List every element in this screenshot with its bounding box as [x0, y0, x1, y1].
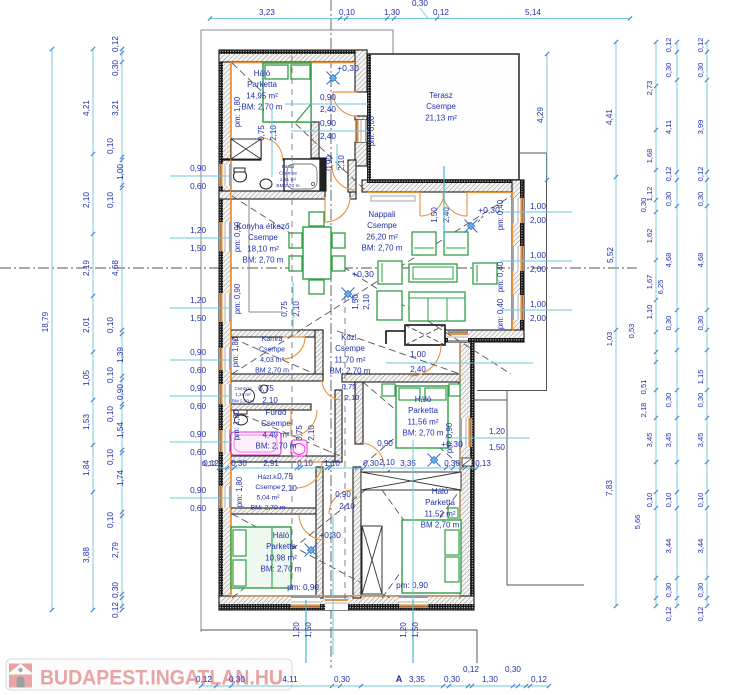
svg-text:pm: 1,80: pm: 1,80 [231, 336, 240, 367]
wing right wall lower [355, 142, 367, 166]
svg-text:0,30: 0,30 [505, 665, 521, 674]
door hall lower [332, 166, 356, 190]
svg-text:Háló: Háló [273, 531, 290, 540]
svg-text:1,15: 1,15 [696, 370, 705, 385]
svg-text:14,95 m²: 14,95 m² [246, 91, 278, 100]
sideboard [371, 196, 415, 201]
diagonal bedroom3 b [382, 490, 460, 598]
svg-text:1,50: 1,50 [411, 622, 420, 638]
roof eaves outline [201, 30, 393, 632]
svg-text:5,52: 5,52 [606, 247, 615, 263]
window left w5 0,90 [219, 384, 231, 404]
svg-text:0,12: 0,12 [111, 602, 120, 618]
svg-text:BM 2,70 m: BM 2,70 m [255, 368, 289, 375]
svg-text:Csempe: Csempe [234, 386, 252, 391]
door wc [291, 410, 317, 436]
svg-text:1,30: 1,30 [482, 675, 498, 684]
svg-text:BM: 2,70 m: BM: 2,70 m [243, 256, 284, 265]
chimney block [405, 325, 445, 345]
nappali right window labels [500, 211, 572, 213]
svg-text:2,10: 2,10 [307, 425, 316, 441]
svg-text:1,20: 1,20 [489, 427, 505, 436]
svg-text:2,00: 2,00 [530, 216, 546, 225]
top exterior wall [219, 50, 367, 62]
svg-text:1,10: 1,10 [645, 305, 654, 320]
svg-text:0,30: 0,30 [664, 393, 673, 408]
svg-text:0,12: 0,12 [696, 607, 705, 622]
right dimension chain totals [615, 42, 617, 606]
svg-text:2,18: 2,18 [639, 403, 648, 418]
section line x345 [344, 296, 346, 600]
svg-text:10,98 m²: 10,98 m² [265, 553, 297, 562]
svg-text:Közl.: Közl. [341, 333, 359, 342]
svg-text:1,00: 1,00 [530, 300, 546, 309]
svg-text:0,30: 0,30 [696, 393, 705, 408]
window step wall SE [448, 331, 468, 342]
svg-text:Parketta: Parketta [247, 80, 277, 89]
svg-text:0,30: 0,30 [444, 459, 460, 468]
svg-text:2,10: 2,10 [281, 484, 297, 493]
right dimension chain col4 [676, 42, 678, 606]
svg-text:0,60: 0,60 [190, 504, 206, 513]
svg-text:0,10: 0,10 [106, 138, 115, 154]
level marker nappali SW [342, 288, 355, 301]
window bottom b2 1,20 [399, 596, 428, 608]
svg-text:0,90: 0,90 [320, 93, 336, 102]
hall door/window labels [285, 103, 368, 105]
svg-text:0,75: 0,75 [277, 472, 293, 481]
built-in wardrobe vertical [362, 526, 382, 594]
svg-text:4,29: 4,29 [536, 107, 545, 123]
left exterior wall [219, 50, 231, 610]
svg-text:0,60: 0,60 [190, 402, 206, 411]
step wall nappali SE [444, 330, 524, 342]
bedroom1 south partition east [283, 158, 321, 160]
svg-text:0,12: 0,12 [203, 459, 219, 468]
svg-text:2,79: 2,79 [111, 542, 120, 558]
svg-text:0,10: 0,10 [645, 493, 654, 508]
svg-text:BM 2,70 m: BM 2,70 m [232, 398, 254, 403]
svg-text:0,12: 0,12 [531, 675, 547, 684]
svg-text:0,12: 0,12 [664, 38, 673, 53]
diagonal furdo [232, 410, 340, 456]
bedroom1 south partition west [221, 158, 262, 160]
bed bedroom4 (halo 10,98) [231, 527, 291, 588]
built-in wardrobe horizontal [361, 472, 461, 490]
wing right wall upper [355, 50, 367, 92]
top dimension chain [210, 18, 630, 20]
svg-text:0,90: 0,90 [190, 384, 206, 393]
kitchen table [303, 227, 331, 279]
window hall east [355, 120, 367, 142]
svg-text:26,20 m²: 26,20 m² [366, 232, 398, 241]
svg-text:0,10: 0,10 [297, 459, 313, 468]
diagonal bedroom2 b [363, 382, 460, 465]
svg-text:5,14: 5,14 [525, 8, 541, 17]
svg-text:Fürdő: Fürdő [266, 408, 287, 417]
svg-text:BM: 2,70 m: BM: 2,70 m [256, 442, 297, 451]
svg-text:Csempe: Csempe [248, 233, 278, 242]
svg-text:0,10: 0,10 [696, 493, 705, 508]
svg-text:Parketta: Parketta [408, 406, 438, 415]
svg-text:Csempe: Csempe [426, 102, 456, 111]
diagonal living BLTR [232, 196, 511, 374]
svg-text:1,39: 1,39 [116, 347, 125, 363]
svg-text:0,30: 0,30 [664, 316, 673, 331]
svg-text:0,90: 0,90 [190, 164, 206, 173]
svg-text:6,25: 6,25 [656, 280, 665, 295]
svg-text:0,30: 0,30 [696, 583, 705, 598]
svg-text:0,10: 0,10 [664, 493, 673, 508]
svg-text:0,12: 0,12 [664, 607, 673, 622]
svg-text:0,30: 0,30 [444, 675, 460, 684]
svg-text:0,60: 0,60 [190, 366, 206, 375]
svg-text:0,10: 0,10 [106, 449, 115, 465]
svg-text:11,56 m²: 11,56 m² [408, 417, 439, 426]
window left w7 0,90 [219, 486, 231, 508]
svg-text:3,45: 3,45 [696, 433, 705, 448]
svg-text:0,10: 0,10 [339, 8, 355, 17]
window nappali right n3 1,00 [512, 295, 524, 320]
bottom exterior wall [219, 596, 474, 610]
svg-text:3,88: 3,88 [82, 547, 91, 563]
svg-text:2,10: 2,10 [379, 458, 395, 467]
svg-text:0,10: 0,10 [106, 317, 115, 333]
furdo magenta tub [231, 432, 281, 455]
door bedroom3 [329, 490, 353, 514]
bottom window dims [305, 600, 307, 663]
svg-text:BM 2,70 m: BM 2,70 m [421, 521, 460, 530]
svg-text:+0,30: +0,30 [337, 63, 359, 73]
left dimension chain 18,79 [51, 49, 53, 610]
svg-text:0,60: 0,60 [190, 182, 206, 191]
svg-text:Konyha étkező: Konyha étkező [237, 222, 290, 231]
svg-text:Parketta: Parketta [266, 542, 296, 551]
section line x292 [291, 56, 293, 596]
svg-text:4,21: 4,21 [82, 100, 91, 116]
lower right exterior wall [460, 342, 474, 610]
svg-text:3,35: 3,35 [409, 675, 425, 684]
diagonal bedroom1 [232, 63, 366, 191]
svg-text:0,75: 0,75 [342, 382, 357, 391]
svg-text:BM: 2,70 m: BM: 2,70 m [251, 505, 286, 512]
svg-text:4,49 m²: 4,49 m² [262, 430, 289, 439]
door hall entry from terasz [333, 92, 357, 116]
svg-text:Fürdő: Fürdő [282, 164, 295, 170]
window left w3 1,20 [219, 293, 231, 322]
svg-text:pm: 0,90: pm: 0,90 [445, 422, 454, 453]
level marker hall [327, 72, 340, 85]
svg-text:0,75: 0,75 [295, 425, 304, 441]
svg-text:1,20: 1,20 [399, 622, 408, 638]
svg-text:Csempe: Csempe [259, 347, 285, 354]
svg-text:2,10: 2,10 [269, 125, 278, 141]
wardrobe bedroom1 [231, 139, 261, 159]
furdo south wall [231, 456, 341, 462]
svg-text:pm: 0,90: pm: 0,90 [287, 583, 319, 592]
nappali right exterior wall [512, 180, 524, 342]
right dimension chain col5 [706, 42, 708, 606]
right dim 4,29 terasz [546, 54, 548, 180]
svg-text:2,10: 2,10 [345, 393, 360, 402]
kamra east wall [315, 330, 323, 378]
svg-text:0,30: 0,30 [231, 459, 247, 468]
bath1 south wall stub [350, 191, 356, 199]
Terasz slab [368, 54, 519, 180]
svg-text:1,62: 1,62 [645, 229, 654, 244]
svg-text:2,91: 2,91 [263, 459, 279, 468]
svg-text:2,81 m²: 2,81 m² [280, 177, 297, 183]
svg-text:2,10: 2,10 [262, 396, 278, 405]
svg-text:pm: 0,00: pm: 0,00 [367, 115, 376, 146]
konyha-kamra wall [231, 330, 323, 337]
door bath1-konyha [325, 197, 350, 222]
svg-text:1,50: 1,50 [489, 443, 505, 452]
svg-text:1,20: 1,20 [190, 226, 206, 235]
svg-text:1,53: 1,53 [82, 414, 91, 430]
svg-text:1,10: 1,10 [324, 459, 340, 468]
svg-text:18,79: 18,79 [41, 311, 50, 332]
svg-text:4,03 m²: 4,03 m² [260, 357, 284, 364]
svg-text:4,11: 4,11 [664, 120, 673, 134]
svg-text:0,90: 0,90 [190, 430, 206, 439]
svg-text:0,12: 0,12 [696, 38, 705, 53]
svg-text:1,30: 1,30 [384, 8, 400, 17]
svg-text:2,73: 2,73 [645, 81, 654, 96]
diagonal bedroom3 a [382, 490, 460, 598]
french door terasz [420, 192, 444, 216]
right dimension chain segments [655, 42, 657, 606]
window nappali right n2 1,00 [512, 246, 524, 271]
window left w2 1,20 [219, 222, 231, 251]
svg-text:BM: 2,70 m: BM: 2,70 m [362, 244, 403, 253]
svg-text:1,67: 1,67 [645, 275, 654, 290]
svg-text:0,12: 0,12 [664, 167, 673, 182]
svg-text:pm: 0,40: pm: 0,40 [496, 199, 505, 230]
svg-text:0,90: 0,90 [190, 348, 206, 357]
svg-text:0,30: 0,30 [363, 459, 379, 468]
svg-text:0,12: 0,12 [463, 665, 479, 674]
terasz-nappali wall [362, 180, 524, 192]
svg-text:0,30: 0,30 [334, 675, 350, 684]
watermark logo budapest.ingatlan.hu [6, 659, 292, 690]
bedroom2 west wall [355, 382, 363, 444]
svg-text:2,10: 2,10 [337, 155, 346, 171]
svg-text:0,30: 0,30 [229, 675, 245, 684]
svg-text:1,54: 1,54 [116, 422, 125, 438]
svg-text:Csempe: Csempe [367, 221, 397, 230]
svg-text:0,12: 0,12 [696, 167, 705, 182]
level marker bedroom4 [305, 544, 318, 557]
svg-text:1,03: 1,03 [605, 332, 614, 346]
svg-text:4,11: 4,11 [282, 675, 298, 684]
svg-text:Nappali: Nappali [368, 210, 395, 219]
svg-text:BM: 2,70 m: BM: 2,70 m [242, 103, 283, 112]
door bedroom2 [360, 443, 384, 467]
svg-text:2,10: 2,10 [339, 502, 355, 511]
cyan line bedroom3 [412, 440, 414, 600]
diagonal bedroom4 b [232, 470, 390, 598]
bottom dimension chain [201, 685, 549, 687]
furdo east wall [335, 390, 342, 462]
svg-text:2,00: 2,00 [530, 265, 546, 274]
svg-text:pm: 0,90: pm: 0,90 [233, 283, 242, 314]
corridor west wall lower [316, 467, 323, 598]
svg-text:1,00: 1,00 [410, 350, 426, 359]
svg-text:11,70 m²: 11,70 m² [335, 355, 366, 364]
svg-text:0,90: 0,90 [325, 155, 334, 171]
svg-text:4,68: 4,68 [111, 260, 120, 276]
svg-text:1,84: 1,84 [82, 460, 91, 476]
svg-text:0,10: 0,10 [106, 406, 115, 422]
window bedroom2 right 1,20 [460, 418, 472, 447]
svg-text:1,05: 1,05 [82, 370, 91, 386]
svg-text:2,19: 2,19 [82, 260, 91, 276]
svg-text:BM: 2,70 m: BM: 2,70 m [403, 429, 444, 438]
svg-text:1,00: 1,00 [530, 251, 546, 260]
bath1 fixtures [284, 159, 320, 191]
svg-text:Háló: Háló [415, 395, 432, 404]
svg-text:A: A [396, 674, 403, 684]
wing right wall piece [355, 116, 367, 120]
door furdo exit [296, 462, 322, 488]
svg-text:0,60: 0,60 [190, 448, 206, 457]
svg-text:0,90: 0,90 [320, 119, 336, 128]
svg-text:0,75: 0,75 [280, 301, 289, 317]
diagonal bedroom4 a [232, 514, 390, 598]
svg-text:4,68: 4,68 [696, 253, 705, 268]
window nappali right n1 1,00 [512, 198, 524, 223]
svg-text:0,75: 0,75 [258, 384, 274, 393]
svg-text:18,10 m²: 18,10 m² [247, 244, 279, 253]
svg-text:1,20: 1,20 [190, 296, 206, 305]
common wall nappali/bedroom2 [342, 374, 460, 382]
svg-text:3,23: 3,23 [259, 8, 275, 17]
svg-text:0,30: 0,30 [664, 63, 673, 78]
svg-text:7,83: 7,83 [605, 480, 614, 496]
svg-text:Csempe: Csempe [335, 344, 365, 353]
door kozl-corridor [322, 380, 342, 400]
svg-text:pm: 0,90: pm: 0,90 [233, 221, 242, 252]
svg-text:2,40: 2,40 [320, 132, 336, 141]
window left w6 0,90 [219, 430, 231, 452]
svg-text:Kamra: Kamra [262, 336, 283, 343]
svg-text:2,40: 2,40 [410, 365, 426, 374]
svg-text:0,30: 0,30 [664, 583, 673, 598]
kitchen counter edge v [248, 199, 250, 312]
svg-text:1,00: 1,00 [116, 164, 125, 180]
svg-text:Csempe: Csempe [261, 419, 291, 428]
svg-text:1,20: 1,20 [292, 622, 301, 638]
svg-text:21,13 m²: 21,13 m² [425, 113, 457, 122]
svg-text:0,10: 0,10 [106, 192, 115, 208]
bed bedroom3 (halo 11,52) [402, 520, 461, 593]
kitchen counter edge h [249, 311, 283, 313]
bedroom3 west wall [353, 467, 361, 598]
door bedroom1 [262, 138, 283, 159]
window bottom b1 1,20 [291, 596, 320, 608]
svg-text:1,50: 1,50 [190, 244, 206, 253]
level marker row [428, 454, 441, 467]
svg-text:2,10: 2,10 [82, 192, 91, 208]
svg-text:BM: 2,70 m: BM: 2,70 m [330, 367, 371, 376]
level marker nappali [465, 220, 478, 233]
svg-text:1,31 m²: 1,31 m² [235, 392, 251, 397]
svg-text:0,30: 0,30 [664, 192, 673, 207]
svg-text:pm: 1,80: pm: 1,80 [232, 409, 241, 440]
diagonal bedroom2 a [363, 382, 460, 465]
wc-furdo wall [231, 404, 311, 410]
svg-text:0,13: 0,13 [475, 459, 491, 468]
svg-text:1,50: 1,50 [351, 294, 360, 310]
axis line horizontal [0, 267, 637, 269]
kamra south wall [231, 374, 323, 381]
big sofa [409, 292, 465, 321]
diagonal kamra [232, 338, 315, 374]
svg-text:0,12: 0,12 [196, 675, 212, 684]
diagonal kozl [337, 331, 460, 374]
bath1 pier east of tub [320, 158, 326, 191]
svg-text:5,04 m²: 5,04 m² [256, 494, 280, 501]
bath1 east wall piece [348, 160, 356, 192]
svg-text:2,10: 2,10 [362, 294, 371, 310]
svg-text:Házt.k.: Házt.k. [257, 474, 278, 481]
svg-text:0,30: 0,30 [639, 198, 648, 213]
bedroom2 window label right [445, 437, 530, 439]
WC room fixtures [244, 390, 255, 403]
svg-text:Háló: Háló [432, 487, 449, 496]
svg-text:0,51: 0,51 [639, 380, 648, 395]
svg-text:2,01: 2,01 [82, 317, 91, 333]
svg-text:11,52 m²: 11,52 m² [425, 509, 456, 518]
svg-text:0,53: 0,53 [627, 324, 636, 339]
svg-text:2,00: 2,00 [530, 314, 546, 323]
svg-text:0,30: 0,30 [412, 0, 428, 8]
svg-text:pm: 0,40: pm: 0,40 [496, 261, 505, 292]
svg-text:3,44: 3,44 [664, 539, 673, 554]
svg-text:BM: 2,70 m: BM: 2,70 m [261, 565, 302, 574]
svg-text:3,45: 3,45 [664, 433, 673, 448]
svg-text:0,30: 0,30 [111, 582, 120, 598]
svg-text:3,99: 3,99 [696, 120, 705, 135]
door gap bottom wall corridor [325, 596, 348, 610]
svg-text:3,35: 3,35 [400, 459, 416, 468]
svg-text:1,68: 1,68 [645, 149, 654, 164]
nappali sofa group [412, 232, 436, 255]
svg-text:4,68: 4,68 [664, 253, 673, 268]
svg-text:0,30: 0,30 [696, 192, 705, 207]
svg-text:pm: 1,80: pm: 1,80 [233, 96, 242, 127]
svg-text:Csempe: Csempe [255, 484, 281, 491]
svg-text:3,45: 3,45 [645, 433, 654, 448]
bedroom1-hall divider piece [311, 122, 319, 158]
diagonal living TLBR [232, 196, 511, 374]
svg-text:1,50: 1,50 [430, 207, 439, 223]
door hazt [299, 514, 325, 540]
svg-text:Csempe: Csempe [279, 170, 297, 176]
svg-text:1,50: 1,50 [304, 622, 313, 638]
left dimension chain small segments [121, 49, 123, 610]
svg-text:0,30: 0,30 [696, 316, 705, 331]
svg-text:Terasz: Terasz [429, 91, 453, 100]
svg-text:1,50: 1,50 [190, 314, 206, 323]
axis line A vertical [330, 0, 332, 668]
svg-text:pm: 1,80: pm: 1,80 [235, 476, 244, 507]
cyan line bedroom4 [332, 515, 334, 655]
svg-text:0,75: 0,75 [257, 125, 266, 141]
svg-text:0,90: 0,90 [335, 490, 351, 499]
svg-text:pm: 0,40: pm: 0,40 [496, 298, 505, 329]
